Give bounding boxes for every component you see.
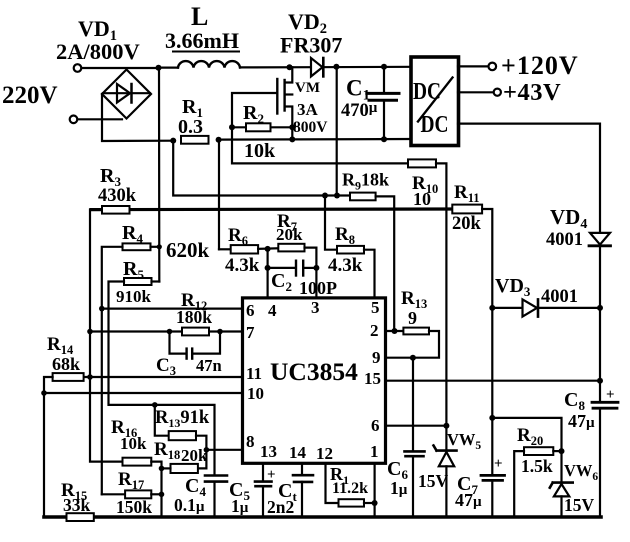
- svg-text:R6: R6: [228, 225, 248, 248]
- node pin7 left: [87, 329, 93, 335]
- node R9 left A: [322, 193, 328, 199]
- zener VW6 15V: [560, 451, 562, 483]
- svg-text:15V: 15V: [418, 471, 449, 491]
- svg-text:C8: C8: [564, 389, 585, 413]
- svg-text:4001: 4001: [541, 287, 578, 307]
- resistor R14 68k: [53, 373, 84, 381]
- svg-text:800V: 800V: [293, 119, 328, 136]
- wire R6 left lead: [219, 248, 231, 250]
- terminal +120V: [489, 63, 497, 71]
- wire 91k right to pin8 node: [196, 436, 206, 450]
- node 91k top: [152, 402, 158, 408]
- svg-text:R918k: R918k: [342, 170, 389, 193]
- wire bridge negative down: [102, 94, 173, 141]
- wire pin 15: [386, 380, 601, 382]
- DC/DC converter box: [411, 57, 459, 146]
- svg-text:C3: C3: [156, 355, 176, 378]
- wire R10 right corner down: [436, 163, 446, 425]
- wire pin9 node down to C6: [412, 358, 414, 452]
- svg-text:+120V: +120V: [501, 51, 579, 80]
- svg-text:4.3k: 4.3k: [328, 255, 363, 276]
- main bus R3 to R11: [91, 207, 452, 211]
- svg-text:430k: 430k: [98, 186, 137, 206]
- capacitor C1 470u: [383, 67, 385, 93]
- wire pin 9: [386, 357, 413, 359]
- wire pin 7: [90, 330, 243, 332]
- svg-text:220V: 220V: [2, 82, 58, 109]
- node MOSFET drain: [287, 64, 293, 70]
- zener VW5 15V: [445, 426, 447, 451]
- capacitor Ct 2n2: [293, 474, 313, 477]
- resistor R9 18k: [350, 193, 376, 201]
- wire R2 leads: [232, 126, 246, 128]
- svg-text:L: L: [191, 2, 208, 31]
- node pin10 left: [41, 390, 47, 396]
- svg-text:20k: 20k: [452, 214, 482, 234]
- wire R1 left sense down and right: [173, 141, 350, 196]
- capacitor C7 47u: [491, 418, 493, 475]
- wire AC sense rail from top node down: [158, 68, 161, 282]
- terminal 220V lower: [70, 116, 78, 124]
- wire lower terminal to bridge: [78, 118, 123, 120]
- node C1 top junction: [381, 64, 387, 70]
- wire inductor to VD2: [240, 66, 311, 68]
- svg-text:10k: 10k: [244, 140, 276, 162]
- svg-text:R5: R5: [123, 258, 144, 282]
- diode VD2 FR307: [311, 66, 411, 69]
- wire R5 right lead: [152, 280, 160, 282]
- inductor L 3.66mH: [178, 61, 240, 68]
- node C2 left: [265, 265, 271, 271]
- capacitor C2 100P: [268, 267, 296, 269]
- MOSFET VM channel bar: [283, 80, 285, 111]
- wire pin 12 to Rt: [326, 464, 339, 504]
- svg-text:VD3: VD3: [495, 275, 531, 299]
- wire 91k branch: [155, 405, 169, 436]
- svg-text:14: 14: [289, 443, 307, 462]
- wire pin 8: [206, 449, 243, 451]
- node R20 right: [559, 448, 565, 454]
- node C2 right: [313, 265, 319, 271]
- wire R4 leads: [151, 246, 160, 248]
- svg-text:47n: 47n: [196, 356, 222, 375]
- svg-text:1.5k: 1.5k: [521, 456, 553, 476]
- wire rail V3 R4-left down to R17: [101, 309, 103, 495]
- wire R20 leads: [553, 450, 561, 452]
- node R9 left B: [334, 193, 340, 199]
- svg-text:+: +: [494, 456, 503, 472]
- svg-text:47µ: 47µ: [568, 411, 595, 431]
- svg-text:R1391k: R1391k: [155, 408, 210, 430]
- svg-text:9: 9: [408, 308, 417, 328]
- resistor R17 150k: [125, 490, 151, 498]
- wire pin 14 to Ct: [301, 464, 303, 476]
- wire pin 2: [386, 330, 404, 332]
- svg-text:+: +: [606, 387, 615, 403]
- svg-text:180k: 180k: [176, 307, 212, 327]
- wire upper terminal to top node: [82, 67, 159, 69]
- node VD2 cathode junction: [333, 64, 339, 70]
- capacitor C5 1u: [255, 480, 272, 483]
- svg-text:4001: 4001: [546, 230, 583, 250]
- resistor R3 430k: [102, 206, 130, 214]
- node R12 right: [217, 329, 223, 335]
- terminal 220V upper: [74, 64, 82, 72]
- wire R3 left down rail V2: [90, 210, 123, 462]
- capacitor C8 47u: [592, 401, 618, 404]
- svg-text:VW5: VW5: [447, 430, 481, 452]
- wire R7 right corner down: [305, 248, 317, 268]
- svg-text:DC: DC: [413, 79, 441, 105]
- wire C2 node left down to pin4: [267, 249, 269, 298]
- node R2 right / source: [289, 124, 295, 130]
- svg-text:C2: C2: [271, 270, 292, 294]
- svg-text:2A/800V: 2A/800V: [56, 39, 140, 64]
- svg-text:11.2k: 11.2k: [332, 480, 368, 497]
- underline of 3.66mH: [172, 51, 240, 53]
- wire C7 node to R20 right: [492, 418, 561, 451]
- wire pin 6: [102, 308, 243, 310]
- svg-text:33k: 33k: [63, 495, 91, 515]
- wire R14 left down rail: [44, 377, 53, 517]
- svg-text:VW6: VW6: [564, 461, 598, 483]
- svg-text:1: 1: [370, 442, 379, 461]
- diode VD4 4001: [590, 233, 610, 245]
- capacitor C6 1u: [405, 450, 425, 453]
- wire R1 right sense down to R6: [218, 140, 220, 250]
- DC/DC slash: [418, 78, 453, 122]
- svg-text:FR307: FR307: [280, 33, 342, 58]
- node pin6 vcc: [443, 423, 449, 429]
- svg-text:R2: R2: [243, 102, 264, 126]
- capacitor C3 47n loop: [170, 332, 187, 354]
- MOSFET VM body stub: [285, 93, 293, 95]
- node C7 top: [489, 415, 495, 421]
- node pin15 right: [597, 378, 603, 384]
- node Rt right: [372, 500, 378, 506]
- svg-text:2n2: 2n2: [267, 497, 294, 517]
- svg-text:VM: VM: [295, 80, 320, 96]
- svg-text:4: 4: [268, 301, 277, 320]
- svg-text:7: 7: [246, 323, 255, 342]
- node source on return bus: [289, 136, 295, 142]
- resistor R20 1.5k: [524, 447, 553, 455]
- bridge rectifier VD1 diamond: [102, 70, 151, 119]
- resistor R10 10: [408, 159, 436, 167]
- svg-text:2: 2: [370, 321, 379, 340]
- node R17 right: [159, 492, 165, 498]
- wire R8 branch: [325, 196, 337, 250]
- svg-text:5: 5: [371, 298, 380, 317]
- node C1 bottom junction: [381, 136, 387, 142]
- resistor R19 91k: [169, 431, 196, 440]
- node R4 right on rail: [157, 244, 162, 249]
- svg-text:68k: 68k: [52, 354, 80, 374]
- svg-text:100P: 100P: [299, 278, 337, 298]
- wire pin3 lead: [315, 268, 317, 298]
- node VD3 right: [597, 305, 603, 311]
- wire pin 11: [84, 376, 243, 378]
- MOSFET VM drain stub: [285, 67, 293, 82]
- svg-text:3.66mH: 3.66mH: [165, 28, 239, 53]
- node R6 right: [265, 246, 271, 252]
- resistor R18 20k: [171, 464, 198, 473]
- svg-text:UC3854: UC3854: [270, 357, 358, 386]
- node R14 right: [87, 374, 93, 380]
- svg-text:R8: R8: [335, 224, 355, 247]
- wire return bus bridge to DC/DC: [219, 138, 412, 141]
- svg-text:10: 10: [413, 189, 431, 209]
- node pin6 left: [99, 306, 105, 312]
- wire R16 right down rail: [151, 462, 161, 517]
- resistor R8 4.3k: [337, 246, 364, 254]
- resistor R1 0.3: [181, 136, 209, 144]
- svg-text:0.3: 0.3: [178, 116, 203, 138]
- svg-text:R17: R17: [118, 469, 144, 492]
- svg-text:910k: 910k: [116, 287, 152, 306]
- node R2 left: [229, 124, 235, 130]
- wire R13 right loop to pin9: [413, 331, 439, 358]
- wire pin 1 down to bus: [374, 464, 376, 518]
- node pin2: [392, 328, 398, 334]
- bottom bus: [44, 515, 601, 519]
- svg-text:R4: R4: [122, 222, 143, 246]
- node R18 left: [159, 466, 165, 472]
- wire R17 right lead: [151, 493, 161, 495]
- svg-text:C1: C1: [346, 76, 370, 104]
- svg-text:3: 3: [311, 298, 320, 317]
- node top junction: [156, 65, 162, 71]
- svg-text:470µ: 470µ: [341, 100, 378, 121]
- wire R18 left lead: [162, 467, 171, 469]
- capacitor C4 0.1u: [205, 474, 227, 477]
- resistor R16 10k: [123, 458, 152, 466]
- resistor R2 10k: [246, 123, 271, 131]
- wire +43V output: [458, 91, 494, 93]
- node VD3 left: [489, 305, 495, 311]
- resistor R7 20k: [278, 244, 304, 252]
- resistor Rt 11.2k: [339, 499, 365, 506]
- wire rail from VD2 cathode down to R9: [336, 67, 338, 196]
- node pin9: [410, 355, 416, 361]
- svg-text:4.3k: 4.3k: [225, 255, 260, 276]
- diode inside bridge VD1: [117, 84, 130, 103]
- node pin8: [204, 447, 210, 453]
- svg-text:3A: 3A: [297, 100, 319, 119]
- resistor R15 33k: [67, 513, 94, 521]
- node R12 left: [167, 329, 173, 335]
- wire DC/DC aux output to VD4 rail: [458, 124, 600, 233]
- wire top node to inductor: [159, 66, 179, 68]
- svg-text:+: +: [267, 467, 276, 483]
- svg-text:15V: 15V: [564, 495, 595, 515]
- resistor R12 180k: [182, 328, 209, 336]
- wire R5 left down to C4 branch: [109, 282, 215, 476]
- wire inside bridge: [103, 92, 150, 94]
- wire pin 6 vcc: [386, 425, 447, 427]
- svg-text:11: 11: [246, 364, 262, 383]
- wire R8 right to pin5: [364, 250, 375, 298]
- svg-text:DC: DC: [421, 112, 449, 138]
- wire +120V output: [458, 65, 489, 67]
- wire Rt right lead: [364, 502, 375, 504]
- svg-text:VD4: VD4: [550, 205, 587, 232]
- resistor R13 9: [403, 328, 429, 335]
- op-amp U1 UC3854 box: [243, 298, 386, 463]
- terminal +43V: [494, 89, 501, 96]
- svg-text:13: 13: [260, 442, 277, 461]
- node R1 left: [170, 138, 176, 144]
- svg-text:12: 12: [316, 444, 333, 463]
- svg-text:620k: 620k: [166, 238, 210, 262]
- MOSFET VM gate plate: [276, 79, 278, 114]
- resistor R11 20k: [452, 205, 482, 214]
- svg-text:10k: 10k: [120, 434, 147, 453]
- svg-text:+43V: +43V: [503, 79, 561, 106]
- svg-text:10: 10: [247, 384, 264, 403]
- resistor R6 4.3k: [231, 245, 258, 253]
- svg-text:20k: 20k: [276, 225, 303, 244]
- wire pin 10: [44, 392, 243, 394]
- wire R9 right down to pin2: [376, 196, 395, 331]
- wire R2 left down to gatedrive rail: [232, 127, 408, 163]
- MOSFET VM source stub: [285, 107, 293, 141]
- svg-text:20k: 20k: [181, 446, 208, 465]
- diode VD3 4001: [492, 307, 600, 309]
- wire gate lead to R2 left: [232, 93, 277, 127]
- svg-text:R18: R18: [154, 439, 180, 462]
- svg-text:9: 9: [372, 348, 381, 367]
- svg-text:6: 6: [246, 301, 255, 320]
- svg-text:6: 6: [371, 416, 380, 435]
- svg-text:R20: R20: [517, 425, 543, 448]
- svg-text:150k: 150k: [116, 497, 152, 517]
- svg-text:15: 15: [364, 369, 381, 388]
- node R1 right: [216, 137, 222, 143]
- svg-text:8: 8: [246, 432, 255, 451]
- wire R6 to R7: [258, 247, 278, 250]
- wire R18 right up: [198, 450, 207, 469]
- svg-text:R11: R11: [454, 182, 480, 205]
- wire R11 right corner down to C7: [482, 209, 492, 418]
- resistor R5 910k: [124, 278, 152, 285]
- wire C8 branch: [599, 381, 601, 402]
- wire pin 13 to C5: [262, 464, 264, 482]
- resistor R4 620k: [123, 243, 151, 250]
